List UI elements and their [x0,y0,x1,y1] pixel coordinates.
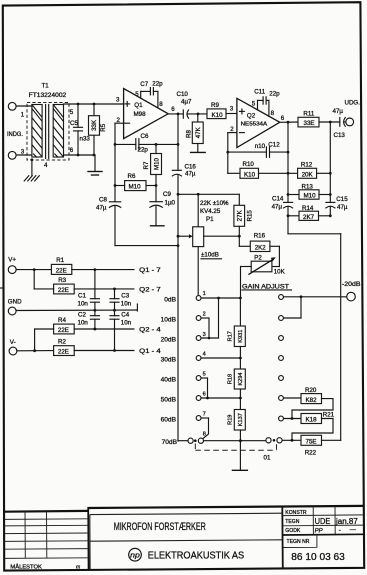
svg-text:2: 2 [203,312,206,318]
svg-text:R17: R17 [228,331,234,341]
svg-text:C3: C3 [121,293,129,300]
svg-text:2K2: 2K2 [255,245,267,252]
svg-text:GODK: GODK [285,528,301,534]
svg-text:4: 4 [203,352,206,358]
svg-text:10dB: 10dB [161,317,177,324]
svg-text:27K: 27K [236,209,243,221]
svg-text:50dB: 50dB [161,397,177,404]
svg-text:C6: C6 [141,133,149,140]
svg-text:8: 8 [271,110,275,117]
svg-text:60dB: 60dB [161,417,177,424]
svg-text:Q2: Q2 [247,112,256,119]
svg-text:R11: R11 [303,111,314,118]
svg-text:10n: 10n [78,301,89,308]
svg-text:6: 6 [281,115,285,122]
svg-text:R18: R18 [228,374,234,384]
svg-text:C1: C1 [78,293,86,300]
svg-text:NE5534A: NE5534A [241,122,268,128]
svg-text:70dB: 70dB [162,439,178,446]
svg-text:22E: 22E [58,327,69,334]
svg-text:40dB: 40dB [161,377,177,384]
svg-text:01: 01 [264,455,271,462]
svg-text:86 10 03 63: 86 10 03 63 [291,552,345,563]
svg-text:5: 5 [203,372,206,378]
svg-text:1: 1 [21,112,25,119]
svg-text:m: m [76,565,80,571]
svg-text:K82: K82 [306,397,318,404]
svg-text:GND: GND [8,299,22,306]
svg-text:FT13224002: FT13224002 [29,92,67,99]
svg-text:-: - [339,528,341,534]
svg-text:P2: P2 [254,254,262,261]
svg-text:R16: R16 [254,233,266,240]
svg-text:C11: C11 [254,89,265,96]
svg-text:47µ: 47µ [272,204,283,211]
svg-text:Q1: Q1 [134,102,143,109]
svg-text:M10: M10 [153,157,160,170]
svg-text:C5: C5 [70,120,78,127]
svg-text:C8: C8 [99,197,107,204]
svg-text:Q1 - 7: Q1 - 7 [139,267,161,274]
svg-text:6: 6 [203,392,206,398]
svg-text:C14: C14 [272,195,284,202]
svg-text:22E: 22E [58,349,69,356]
svg-text:47µ: 47µ [333,108,344,115]
svg-text:10n: 10n [121,301,132,308]
svg-text:R10: R10 [243,161,255,168]
svg-text:R2: R2 [58,339,66,346]
svg-text:±10dB: ±10dB [201,252,219,259]
svg-text:R4: R4 [58,317,66,324]
svg-text:22K ±10%: 22K ±10% [200,200,229,207]
svg-text:1: 1 [203,291,206,297]
svg-text:C10: C10 [177,91,189,98]
svg-text:47µ: 47µ [96,205,107,212]
svg-text:MÅLESTOK: MÅLESTOK [10,563,42,570]
svg-text:R1: R1 [56,257,64,264]
svg-text:2K7: 2K7 [303,214,315,221]
svg-text:R13: R13 [302,184,314,191]
svg-text:TEGN: TEGN [285,519,299,525]
svg-text:C4: C4 [121,312,129,319]
svg-text:Q2 - 7: Q2 - 7 [139,287,161,294]
svg-text:R6: R6 [128,173,136,180]
svg-text:Q2 - 4: Q2 - 4 [139,327,161,334]
svg-text:KV4.25: KV4.25 [200,208,221,215]
svg-text:UDE: UDE [315,517,331,526]
svg-text:Q1 - 4: Q1 - 4 [139,348,161,355]
svg-text:6: 6 [70,147,74,154]
svg-text:M98: M98 [134,111,147,118]
svg-text:47µ: 47µ [185,171,196,178]
svg-text:K137: K137 [238,413,244,426]
svg-text:C9: C9 [163,191,171,198]
svg-text:10n: 10n [121,319,132,326]
svg-text:n10: n10 [255,143,266,150]
svg-text:MIKROFON FORSTÆRKER: MIKROFON FORSTÆRKER [114,521,206,533]
svg-text:6: 6 [171,106,175,113]
svg-text:C16: C16 [185,163,197,170]
svg-text:R8: R8 [186,129,193,137]
svg-text:R9: R9 [211,102,219,109]
svg-text:7: 7 [203,412,206,418]
svg-text:K10: K10 [244,171,256,178]
svg-text:R5: R5 [100,123,107,131]
svg-text:0dB: 0dB [164,297,176,304]
svg-text:5: 5 [252,101,256,108]
svg-text:np: np [130,552,140,559]
svg-text:V-: V- [10,339,16,346]
svg-text:INDG.: INDG. [7,131,23,138]
svg-text:R20: R20 [305,387,317,394]
svg-text:47K: 47K [195,126,202,138]
svg-text:1µ0: 1µ0 [165,199,176,206]
svg-text:R7: R7 [143,161,150,169]
svg-text:C2: C2 [78,312,86,319]
svg-text:R15: R15 [247,210,254,222]
svg-text:4µ7: 4µ7 [181,99,192,106]
svg-text:M10: M10 [129,184,142,191]
svg-text:22E: 22E [58,287,69,294]
svg-text:2: 2 [230,126,234,133]
svg-text:C7: C7 [140,81,148,88]
svg-text:P1: P1 [206,216,214,223]
svg-text:-20dB: -20dB [342,281,361,288]
svg-text:30dB: 30dB [161,357,177,364]
svg-text:8: 8 [159,101,163,108]
svg-text:22E: 22E [56,268,67,275]
svg-text:75E: 75E [306,438,317,445]
svg-text:R12: R12 [301,161,313,168]
svg-text:5: 5 [135,91,139,98]
svg-text:33K: 33K [91,119,98,131]
svg-text:R22: R22 [305,450,317,457]
svg-text:KONSTR: KONSTR [285,510,307,516]
svg-text:C12: C12 [268,142,280,149]
svg-text:22p: 22p [269,90,280,97]
svg-text:33E: 33E [304,120,315,127]
svg-text:R19: R19 [228,415,234,425]
svg-text:47µ: 47µ [337,204,348,211]
svg-text:4: 4 [44,162,48,169]
svg-text:UDG.: UDG. [345,99,361,106]
svg-text:—: — [350,527,356,533]
svg-text:20dB: 20dB [161,337,177,344]
svg-text:10K: 10K [274,269,286,276]
svg-text:TEGN NR: TEGN NR [287,539,310,545]
svg-text:M10: M10 [304,192,317,199]
svg-text:C15: C15 [336,196,348,203]
svg-text:K10: K10 [212,112,224,119]
svg-text:R14: R14 [302,205,314,212]
svg-text:T1: T1 [42,83,50,90]
svg-text:22p: 22p [138,146,149,153]
svg-text:K18: K18 [306,417,318,424]
svg-text:n33: n33 [80,136,91,143]
svg-text:3: 3 [116,97,120,104]
svg-text:PP: PP [315,529,323,535]
svg-text:R3: R3 [58,277,66,284]
svg-text:3: 3 [230,106,234,113]
svg-text:10n: 10n [78,319,89,326]
svg-text:3: 3 [203,332,206,338]
svg-text:ELEKTROAKUSTIK AS: ELEKTROAKUSTIK AS [148,551,245,562]
svg-text:5: 5 [70,109,74,116]
svg-text:jan.87: jan.87 [335,517,358,526]
svg-text:R21: R21 [323,411,335,418]
svg-text:V+: V+ [8,257,16,264]
svg-text:22p: 22p [152,81,163,88]
svg-text:K931: K931 [238,330,244,343]
svg-text:C13: C13 [334,132,346,139]
svg-text:20K: 20K [302,171,314,178]
svg-text:K294: K294 [238,372,244,385]
